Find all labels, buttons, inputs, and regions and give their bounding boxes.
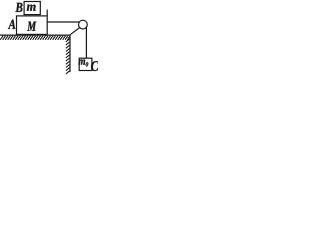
label B [15, 3, 22, 12]
block B (mass m) box [24, 2, 40, 15]
ground line [0, 34, 71, 36]
pulley [79, 20, 88, 29]
string from pulley down to block C [85, 27, 87, 58]
label A [8, 20, 15, 29]
table edge hatching [66, 39, 70, 74]
label M (inside block A) [27, 22, 36, 31]
string from block A to pulley [47, 21, 79, 23]
block C (mass m0) box [79, 58, 92, 70]
label m0 (inside block C) [78, 59, 88, 66]
pulley bracket from table corner [70, 28, 79, 35]
post on top-right corner of block A [46, 10, 48, 16]
table vertical edge [69, 35, 71, 72]
label m (inside block B) [27, 5, 36, 11]
ground hatching [0, 36, 70, 40]
block A (mass M) box [17, 16, 48, 35]
label C [91, 61, 99, 71]
